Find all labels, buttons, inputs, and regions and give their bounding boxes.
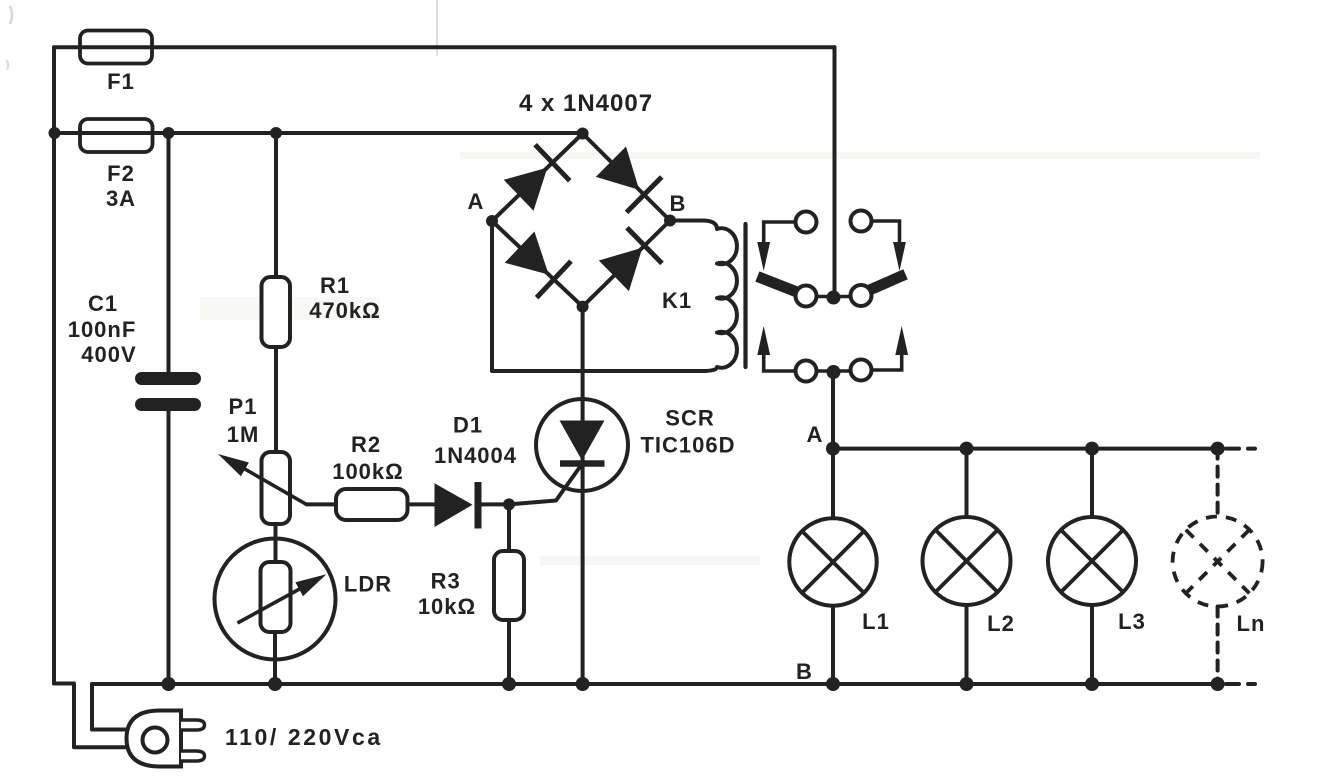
svg-text:F1: F1 <box>107 69 135 94</box>
svg-text:110/ 220Vca: 110/ 220Vca <box>225 724 383 750</box>
junction dot bus B at L3 <box>1085 677 1099 691</box>
wire lower-left lead <box>764 352 796 371</box>
relay contacts upper pole <box>757 211 906 307</box>
wire bridge arm A-top <box>492 134 583 222</box>
svg-text:100kΩ: 100kΩ <box>332 459 404 484</box>
svg-text:100nF: 100nF <box>68 317 137 342</box>
wire bridge arm bottom-B <box>583 221 670 307</box>
SCR TIC106D circle <box>536 399 628 491</box>
blade upper-left <box>763 279 803 295</box>
contact circle middle-right <box>851 285 872 306</box>
junction dot bottom bus R3 <box>502 677 516 691</box>
wire R3 to bottom bus <box>507 620 511 684</box>
LDR body <box>261 562 291 632</box>
wire upper-right fixed contact lead <box>872 221 900 246</box>
blade upper-right <box>865 277 901 293</box>
svg-text:L3: L3 <box>1118 609 1146 634</box>
svg-text:A: A <box>807 422 824 447</box>
arrow up lower-left <box>757 326 770 355</box>
wire SCR rail from bridge bottom to bottom bus <box>581 307 585 684</box>
wire C1 branch bottom <box>167 411 171 684</box>
arrow up lower-right <box>895 326 908 355</box>
wire plug pin to left rail <box>54 684 128 748</box>
faint scan artifact marks top-left <box>10 6 12 24</box>
wire between lower contacts <box>806 369 861 373</box>
contact circle upper-right open <box>851 211 872 232</box>
svg-text:400V: 400V <box>81 342 136 367</box>
wire L1 leads <box>831 449 835 684</box>
svg-text:4 x 1N4007: 4 x 1N4007 <box>519 90 653 117</box>
svg-text:Ln: Ln <box>1237 611 1266 636</box>
junction dot upper pole common <box>827 291 841 305</box>
mains plug <box>127 711 205 767</box>
wire lamp bus A dashed extension <box>1226 447 1255 451</box>
wire gate lead of SCR <box>509 464 582 504</box>
junction dot phase bus R1 <box>270 127 282 139</box>
resistor R2 <box>336 489 408 520</box>
bridge diode 3 (A to bottom) <box>505 232 571 298</box>
SCR cathode bar <box>560 460 605 467</box>
resistor R1 <box>262 277 291 347</box>
contact circle lower-right <box>851 360 872 381</box>
junction dot bus B at L1 <box>826 677 840 691</box>
LDR arrow <box>238 574 327 623</box>
fuse F1 <box>80 31 152 64</box>
wire lamp bus A <box>833 447 1218 451</box>
wire R1 branch <box>274 133 278 277</box>
junction dot bottom bus SCR <box>576 677 590 691</box>
wire C1 branch top <box>167 133 171 372</box>
diode D1 <box>435 482 479 529</box>
contact circle middle-left <box>796 286 817 307</box>
svg-text:K1: K1 <box>662 288 692 313</box>
wire R1 to P1 <box>274 347 278 452</box>
svg-text:TIC106D: TIC106D <box>640 433 735 458</box>
svg-text:C1: C1 <box>88 291 118 316</box>
junction dot bottom bus LDR <box>268 677 282 691</box>
junction dot bottom bus C1 <box>162 677 176 691</box>
junction dot phase bus C1 <box>163 127 175 139</box>
lamp L3 <box>1048 517 1136 605</box>
junction dot bus A at Ln <box>1211 442 1225 456</box>
wire phase bus to bridge top <box>54 131 583 135</box>
svg-text:B: B <box>796 659 813 684</box>
wire bridge A to coil return <box>492 221 706 371</box>
wire Ln dashed leads <box>1216 449 1220 684</box>
wire wiper bend to R2 <box>307 502 337 506</box>
wire bottom bus dashed extension <box>1226 682 1255 686</box>
relay coil K1 <box>670 221 737 372</box>
svg-text:L2: L2 <box>987 611 1015 636</box>
node bridge bottom <box>577 301 589 313</box>
junction dot bus A at L2 <box>960 442 974 456</box>
svg-text:L1: L1 <box>862 609 890 634</box>
faint scan artifact vertical line <box>436 0 438 56</box>
svg-text:1M: 1M <box>227 422 260 447</box>
wire R2 to D1 <box>408 502 436 506</box>
bridge diode 2 (top to B) <box>596 147 662 213</box>
svg-text:3A: 3A <box>106 186 136 211</box>
wire bottom bus B <box>92 682 1218 686</box>
wire P1 to LDR <box>274 524 278 562</box>
svg-text:LDR: LDR <box>344 572 392 597</box>
wire relay lower pole to node A <box>831 372 835 449</box>
lamp L1 <box>789 518 876 605</box>
fuse F2 <box>80 119 153 152</box>
relay K1 core bar <box>743 224 747 367</box>
SCR triangle <box>560 421 605 461</box>
node gate junction <box>503 498 515 510</box>
svg-text:470kΩ: 470kΩ <box>309 298 381 323</box>
relay contacts lower pole <box>757 326 908 382</box>
wire L3 leads <box>1090 449 1094 684</box>
wire bridge arm A-bottom <box>492 221 583 307</box>
bridge diode 4 (bottom to B) <box>599 228 662 291</box>
wire LDR to bottom bus <box>273 632 277 684</box>
contact circle upper-left open <box>796 212 817 233</box>
svg-text:R2: R2 <box>351 432 381 457</box>
node B of bridge <box>664 215 676 227</box>
wire upper-left fixed contact lead <box>764 222 796 246</box>
node A of bridge <box>486 215 498 227</box>
lamp Ln dashed <box>1173 517 1263 607</box>
svg-text:P1: P1 <box>229 394 258 419</box>
wire right drop from top bus to relay contacts <box>833 47 837 294</box>
svg-text:10kΩ: 10kΩ <box>418 594 476 619</box>
wire D1 to gate node <box>479 502 509 506</box>
svg-text:A: A <box>468 189 485 214</box>
faint scan smudge rows <box>460 152 1260 159</box>
wire lower-right lead <box>872 352 902 370</box>
junction dot phase bus left <box>49 127 61 139</box>
arrow down upper-right <box>893 242 906 271</box>
wire L2 leads <box>965 449 969 684</box>
junction dot bus B at Ln <box>1211 677 1225 691</box>
node A dot <box>826 442 840 456</box>
wire top bus <box>54 45 835 49</box>
LDR circle <box>215 539 336 660</box>
junction dot lower pole common <box>827 365 841 379</box>
node bridge top <box>577 128 589 140</box>
svg-text:R1: R1 <box>320 273 350 298</box>
svg-text:SCR: SCR <box>665 406 714 431</box>
bridge diode 1 (A to top) <box>504 145 570 211</box>
arrow down upper-left <box>757 242 770 271</box>
contact circle lower-left <box>796 361 817 382</box>
resistor R3 <box>494 551 524 620</box>
wire R3 branch <box>507 504 511 551</box>
capacitor C1 plate 2 <box>135 398 201 411</box>
lamp L2 <box>923 517 1011 605</box>
svg-text:F2: F2 <box>107 161 135 186</box>
svg-text:D1: D1 <box>453 413 483 438</box>
svg-text:B: B <box>670 191 687 216</box>
junction dot bus A at L3 <box>1085 442 1099 456</box>
wire between middle contacts <box>806 295 861 299</box>
potentiometer P1 wiper arrow <box>218 454 307 504</box>
potentiometer P1 body <box>262 452 291 524</box>
capacitor C1 plate 1 <box>135 372 201 385</box>
wire plug pin to bottom bus <box>92 684 128 730</box>
wire left rail <box>52 47 56 683</box>
wire bridge arm top-B <box>583 134 670 221</box>
junction dot bus B at L2 <box>960 677 974 691</box>
svg-text:R3: R3 <box>431 569 461 594</box>
svg-text:1N4004: 1N4004 <box>434 443 517 468</box>
